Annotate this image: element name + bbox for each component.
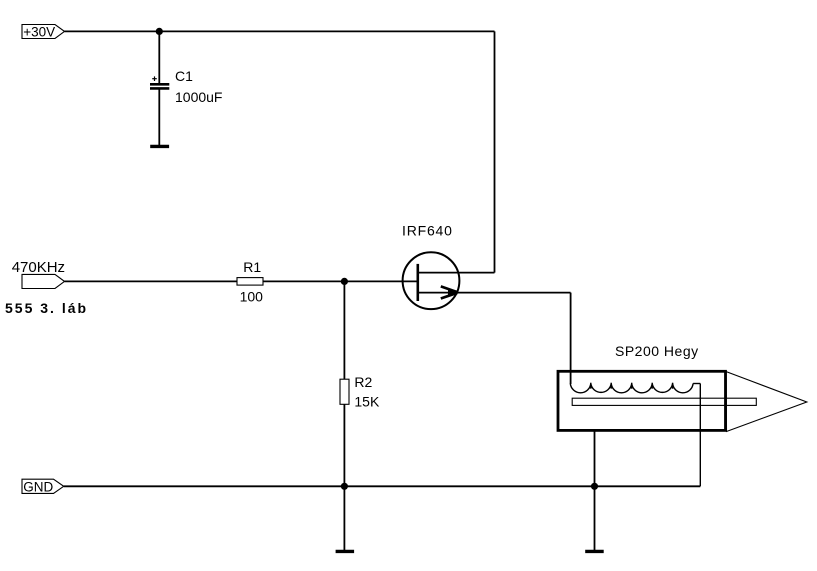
transistor Q1 body circle — [403, 252, 460, 309]
svg-text:470KHz: 470KHz — [12, 259, 65, 276]
ground under R2 — [336, 550, 355, 553]
capacitor C1 — [150, 68, 222, 105]
wire R2 branch vertical — [343, 281, 345, 550]
svg-text:GND: GND — [23, 479, 53, 494]
node +30V port tag — [22, 25, 65, 39]
wire heater left pin down — [594, 430, 596, 550]
wire source line — [418, 292, 571, 294]
svg-text:100: 100 — [240, 288, 264, 304]
svg-text:1000uF: 1000uF — [175, 89, 222, 105]
wire +30V down to drain — [494, 31, 496, 272]
soldering tip triangle — [726, 372, 807, 432]
wire source down to heater — [570, 293, 572, 384]
wire gate net — [65, 280, 418, 282]
svg-text:555 3. láb: 555 3. láb — [5, 300, 88, 316]
svg-text:IRF640: IRF640 — [402, 223, 453, 239]
resistor R1 — [237, 259, 263, 305]
ground under C1 — [150, 145, 169, 148]
svg-text:SP200 Hegy: SP200 Hegy — [615, 343, 699, 359]
heater element bar — [572, 398, 756, 405]
wire C1 bottom lead — [158, 89, 160, 145]
node GND port tag — [22, 479, 64, 493]
wire coil right terminal — [693, 383, 700, 385]
junction dot R2/GND — [341, 483, 348, 490]
junction dot heater/GND — [591, 483, 598, 490]
svg-text:R2: R2 — [354, 374, 372, 390]
wire drain line — [418, 272, 495, 274]
wire C1 top lead — [158, 31, 160, 83]
ground under heater — [585, 550, 604, 553]
svg-text:C1: C1 — [175, 68, 193, 84]
svg-text:R1: R1 — [243, 259, 261, 275]
transistor Q1 source arrow — [441, 286, 458, 292]
svg-text:15K: 15K — [354, 393, 380, 409]
svg-text:+30V: +30V — [23, 24, 55, 39]
junction dot at C1 top — [156, 28, 163, 35]
wire +30V horizontal — [65, 30, 495, 32]
wire GND horizontal — [64, 485, 701, 487]
resistor R2 — [340, 374, 380, 409]
transistor Q1 channel bar — [416, 264, 419, 301]
inductor heater coil — [570, 384, 693, 393]
junction dot gate/R2 — [341, 278, 348, 285]
heater box SP200 — [558, 371, 726, 430]
